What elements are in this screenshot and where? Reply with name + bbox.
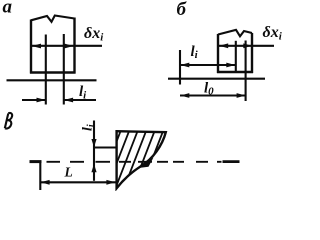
extension line 1 fig b <box>235 41 237 72</box>
dimension l_i fig a <box>22 99 96 101</box>
arrowhead right fig a <box>65 44 74 49</box>
upper reference line fig v <box>94 146 118 148</box>
arrowhead right l_0 fig b <box>237 93 246 98</box>
dimension l_0 fig b <box>180 94 246 96</box>
arrowhead pointing right at ext1 fig a <box>37 98 46 103</box>
svg-text:б: б <box>177 0 188 20</box>
workpiece outline fig a <box>30 18 76 74</box>
svg-text:L: L <box>64 165 73 180</box>
label в <box>5 113 12 129</box>
dimension l_i fig b <box>180 64 236 66</box>
arrowhead pointing left at ext2 fig a <box>64 98 73 103</box>
base line fig a <box>7 79 97 81</box>
workpiece outline fig b <box>217 33 253 73</box>
extension line 2 fig a <box>63 34 65 105</box>
base line fig b <box>168 78 265 80</box>
arrowhead right l_i fig b <box>226 63 235 68</box>
dimension line L fig v <box>40 181 115 183</box>
arrowhead down fig v <box>91 139 96 147</box>
break line top edge fig b <box>218 30 252 37</box>
dimension line dx_i fig a <box>32 45 103 47</box>
centre axis dash line fig v <box>30 160 42 163</box>
left extension line fig b <box>179 50 181 85</box>
arrowhead right L fig v <box>106 180 115 185</box>
arrowhead outside right edge fig b <box>243 43 252 48</box>
hatching fig v <box>97 130 189 192</box>
arrowhead left l_0 fig b <box>180 93 189 98</box>
arrowhead up fig v <box>91 164 96 173</box>
arrowhead left l_i fig b <box>180 63 189 68</box>
extension line 1 fig a <box>45 35 47 105</box>
vertical dimension line l_i fig v <box>93 121 95 181</box>
break line top edge fig a <box>31 16 75 22</box>
left extension line L fig v <box>39 163 41 191</box>
arrowhead left L fig v <box>41 180 50 185</box>
arrowhead left fig a <box>32 44 41 49</box>
arrowhead left fig b <box>219 43 228 48</box>
svg-text:а: а <box>3 0 13 18</box>
dimension line dx_i fig b <box>219 45 274 47</box>
solid tip of wedge fig v <box>137 158 154 169</box>
extension line 2 fig b <box>245 41 247 102</box>
